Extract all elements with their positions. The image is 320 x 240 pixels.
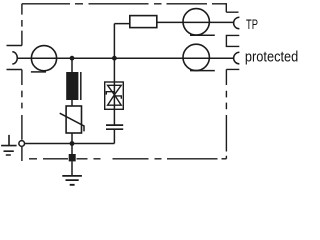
ground symbol (bottom center) (62, 176, 82, 185)
wire: earth line down to enclosure earthing block (71, 144, 73, 155)
wire: resistor to TP terminal (157, 21, 234, 23)
suppressor diode U1 upper triangle (108, 85, 122, 95)
disconnection device F1 contact tangent (31, 71, 46, 73)
wire: node A down to gas discharge tube (71, 58, 73, 72)
PE ground symbol (left) (1, 135, 17, 155)
node A junction dot (GDT branch) (70, 56, 75, 61)
svg-text:TP: TP (246, 16, 258, 32)
enclosure border bottom (dashed) (29, 158, 218, 160)
earthing block (filled rect on border) (69, 154, 76, 161)
enclosure border left (dashed, with terminal notches) (7, 4, 22, 161)
protected terminal arc (234, 52, 240, 64)
wire: riser from node B to decoupling resistor (114, 24, 129, 59)
enclosure border bottom-right corner tick (222, 158, 227, 160)
gas discharge tube F4 (filled body) (66, 72, 78, 100)
suppressor diode U1 lower triangle (108, 95, 122, 105)
enclosure border right below protected (step + dashes) (226, 69, 239, 158)
wire: earthing block to ground (71, 161, 73, 175)
enclosure border top-right step (226, 3, 238, 12)
disconnection device F2 (TP circle) (183, 9, 209, 35)
resistor R1 (decoupling element) (130, 16, 157, 28)
disconnection device F2 contact tangent (190, 34, 215, 36)
suppressor diode U1 box (105, 82, 124, 109)
wire: main line from input through disconnectors to protected terminal (17, 57, 233, 59)
left input terminal arc (12, 52, 17, 64)
open terminal node (earthing point) (19, 141, 25, 147)
svg-text:protected: protected (245, 47, 298, 64)
gas discharge tube F4 side electrode line (80, 72, 82, 100)
TP terminal arc (234, 17, 240, 29)
varistor RV1 body (66, 106, 81, 133)
capacitor C1 plates (106, 125, 123, 129)
node B junction dot (TVS branch) (112, 56, 117, 61)
disconnection device F3 contact tangent (190, 70, 215, 72)
suppressor diode U1 center bar with hooks (106, 92, 121, 99)
wire: capacitor to earth line corner (113, 130, 115, 144)
disconnection device F1 (left circle) (31, 46, 56, 71)
node C junction dot on earth line (70, 141, 75, 146)
enclosure border top (dashed) (22, 3, 226, 5)
wire: GDT to varistor (71, 100, 73, 106)
varistor RV1 diagonal stroke (60, 113, 84, 131)
enclosure border right bracket between TP and protected (226, 35, 239, 46)
disconnection device F3 (protected circle) (183, 44, 209, 70)
wire: varistor to earth line (71, 133, 73, 144)
wire: node B down through suppressor to capacitor (113, 58, 115, 125)
wire: earth equipotential line (25, 143, 115, 145)
